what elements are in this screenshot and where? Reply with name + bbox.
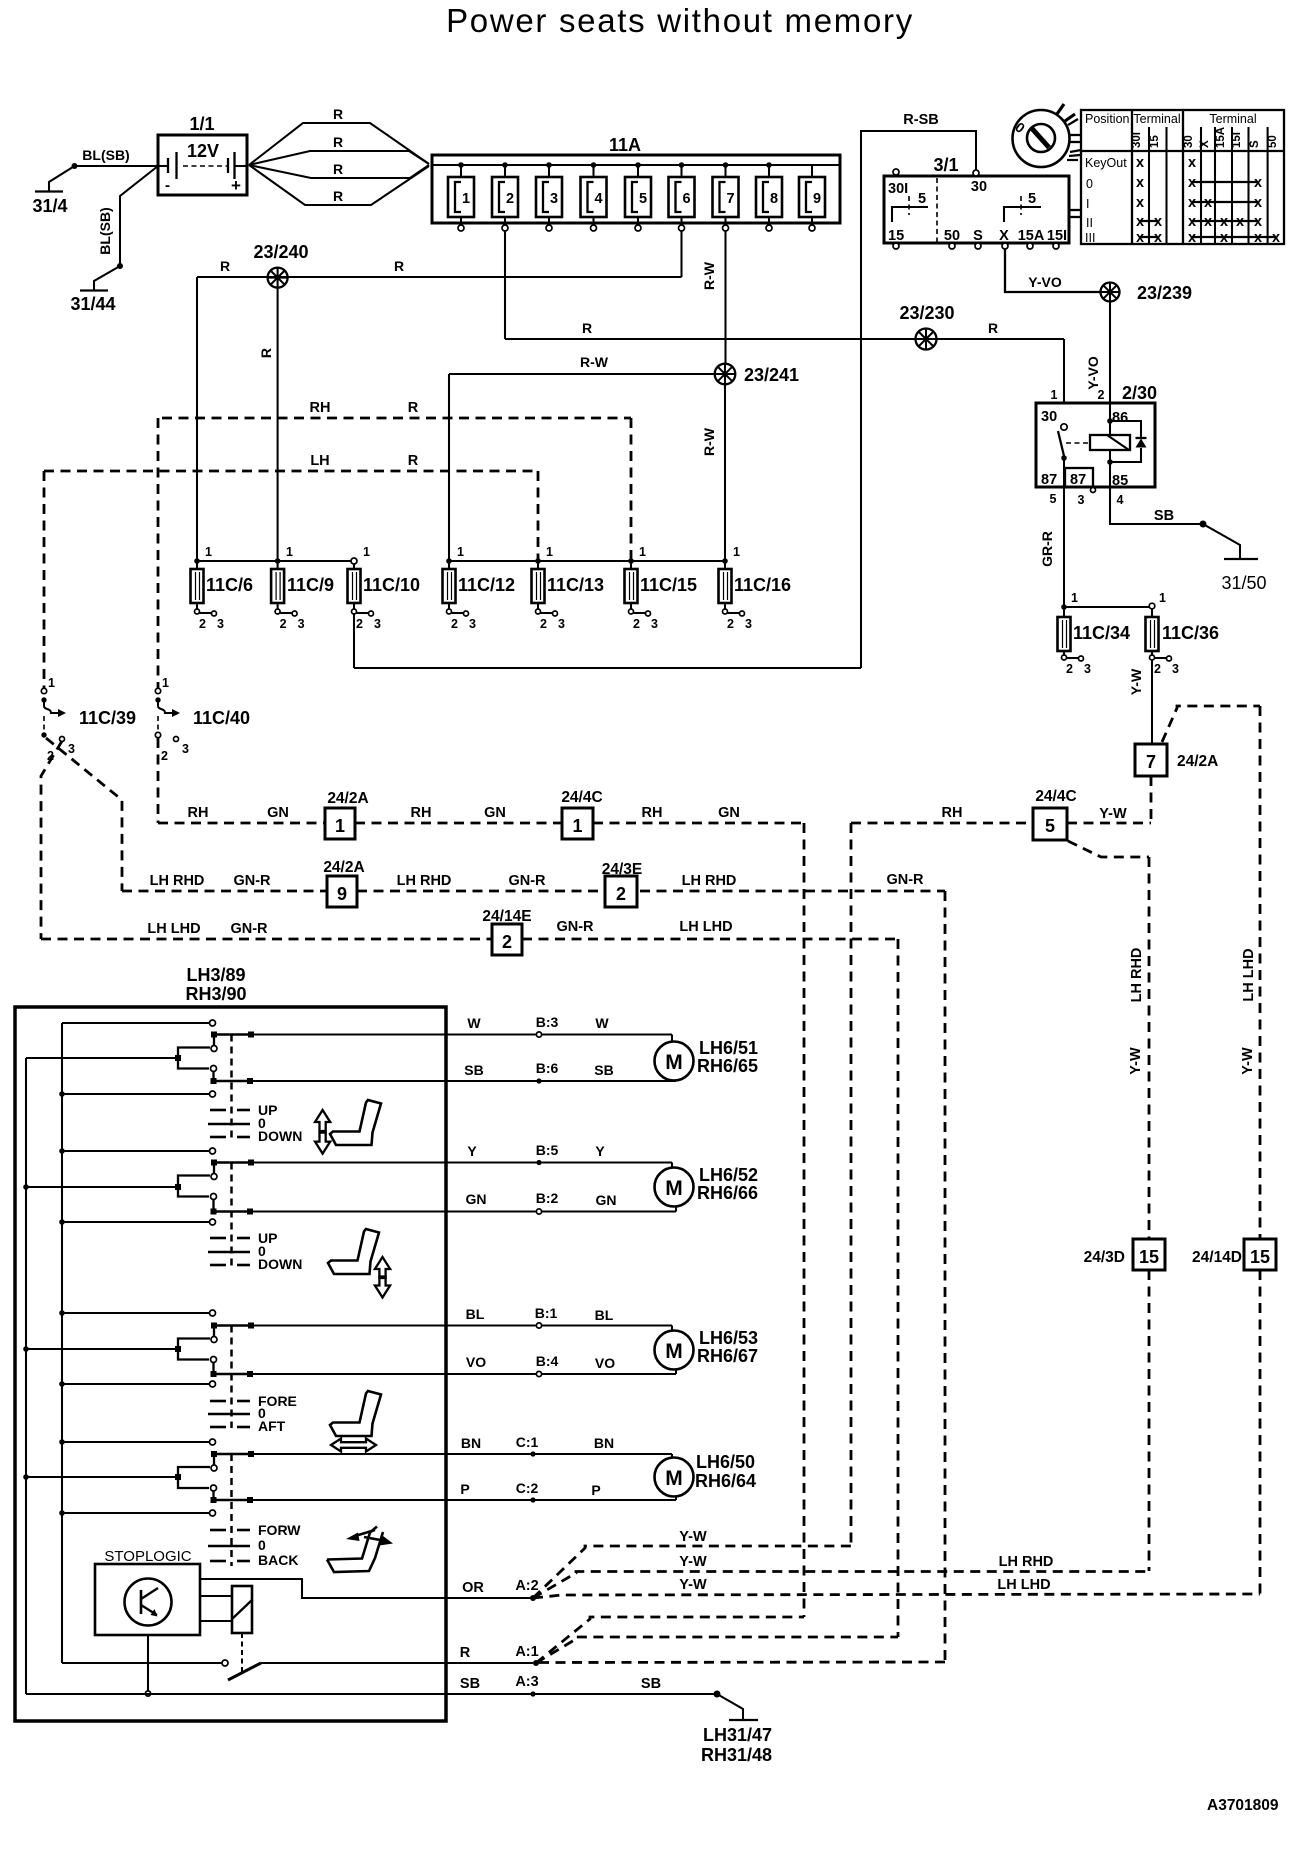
wire SB row [26, 1674, 743, 1720]
svg-text:11C/15: 11C/15 [640, 575, 697, 595]
wire R row with switch [62, 1644, 539, 1680]
svg-text:5: 5 [918, 191, 926, 207]
wire pin7 down to Y-W row [1150, 776, 1153, 823]
svg-text:x: x [1136, 195, 1144, 211]
connector 11C/9 [271, 545, 334, 631]
wire 11C/39 pin2 to LH RHD row [46, 738, 122, 891]
svg-text:11C/10: 11C/10 [363, 575, 420, 595]
svg-text:RH: RH [642, 805, 663, 821]
svg-text:x: x [1236, 214, 1244, 230]
svg-text:12V: 12V [187, 141, 219, 161]
svg-text:2: 2 [540, 617, 547, 631]
svg-text:1: 1 [572, 816, 582, 836]
svg-text:W: W [595, 1015, 609, 1031]
splice 23/240 [253, 242, 308, 288]
connector 11C/34 [1058, 591, 1167, 676]
svg-text:LH RHD: LH RHD [397, 873, 452, 889]
svg-text:LH3/89: LH3/89 [186, 965, 245, 985]
splice 23/239 [1101, 283, 1193, 304]
switch group 4 (tilt) [26, 1439, 301, 1568]
wire dashed row 6 from A:1 [539, 1661, 945, 1664]
wire dashed row 4 from A:1 [536, 1617, 804, 1663]
connector 11C/15 [625, 545, 698, 631]
svg-text:LH RHD: LH RHD [150, 873, 205, 889]
wire Y-W pin5 to pin7 riser [1067, 806, 1151, 823]
wire Y to motor [251, 1142, 672, 1168]
wire GR-R relay pin5 down [1039, 487, 1064, 607]
svg-text:x: x [1188, 230, 1196, 246]
svg-text:C:1: C:1 [516, 1434, 539, 1450]
svg-text:Y-W: Y-W [1128, 1047, 1144, 1075]
svg-text:87: 87 [1041, 472, 1057, 488]
svg-text:M: M [665, 1340, 683, 1363]
wire BN to motor [251, 1434, 672, 1458]
svg-text:30: 30 [971, 179, 987, 195]
wire LH LHD vertical [1240, 706, 1260, 1239]
fuse 7 [713, 162, 739, 231]
svg-text:R: R [408, 400, 419, 416]
fuse 8 [756, 162, 782, 231]
seat icon 3 with fore-aft arrow [330, 1391, 381, 1452]
svg-text:R-W: R-W [701, 427, 717, 456]
ignition switch 3/1 [884, 155, 1081, 249]
svg-text:+: + [231, 176, 241, 195]
wire dashed row 5 from A:1 [536, 1637, 898, 1663]
svg-text:LH LHD: LH LHD [679, 919, 732, 935]
svg-text:B:1: B:1 [535, 1305, 558, 1321]
svg-text:87: 87 [1070, 472, 1086, 488]
svg-text:GN-R: GN-R [556, 919, 594, 935]
svg-text:2: 2 [727, 617, 734, 631]
svg-text:1: 1 [546, 545, 553, 559]
svg-text:VO: VO [595, 1355, 615, 1371]
wire Y-W 11C/36 to pin7 [1128, 660, 1152, 744]
svg-text:R: R [333, 161, 343, 177]
svg-text:DOWN: DOWN [258, 1256, 302, 1272]
svg-text:SB: SB [641, 1676, 661, 1692]
wire R fuse2 down [504, 231, 506, 339]
svg-text:R: R [460, 1645, 471, 1661]
svg-text:3: 3 [1172, 662, 1179, 676]
wire R-W 23/241 to 11C/12 [449, 354, 715, 561]
svg-text:2: 2 [199, 617, 206, 631]
svg-text:x: x [1154, 214, 1162, 230]
wire Y-W LH LHD row from A:2 [533, 1577, 1260, 1598]
svg-text:Y-W: Y-W [679, 1577, 707, 1593]
svg-text:Terminal: Terminal [1133, 112, 1180, 126]
svg-text:3: 3 [1078, 493, 1085, 507]
svg-text:RH: RH [411, 805, 432, 821]
motor LH6/51 RH6/65 [655, 1038, 759, 1081]
svg-text:x: x [1154, 230, 1162, 246]
svg-text:-: - [165, 177, 170, 194]
svg-text:Y-W: Y-W [679, 1529, 707, 1545]
svg-text:1: 1 [205, 545, 212, 559]
svg-text:1: 1 [162, 676, 169, 690]
fuse 4 [581, 162, 607, 231]
svg-text:3: 3 [469, 617, 476, 631]
svg-text:5: 5 [1050, 492, 1057, 506]
svg-text:R: R [582, 320, 592, 336]
wire R-W fuse7 to 23/241 [701, 231, 726, 363]
svg-text:9: 9 [813, 191, 821, 207]
svg-text:A3701809: A3701809 [1207, 1797, 1279, 1814]
switch 11C/39 [41, 471, 136, 763]
svg-text:3: 3 [1084, 662, 1091, 676]
seat icon 4 tilt with arrows [327, 1527, 393, 1573]
wire BL(SB) to 31/44 [94, 166, 158, 290]
wire SB to motor [250, 1060, 676, 1084]
svg-text:24/4C: 24/4C [1035, 788, 1076, 805]
wire LH LHD row (middle) [41, 919, 898, 939]
svg-text:GN: GN [466, 1191, 487, 1207]
svg-text:15A: 15A [1215, 127, 1227, 148]
connector pin 24/4C 5 [1033, 788, 1077, 840]
ignition position table [1081, 110, 1284, 246]
key symbol [1012, 104, 1081, 167]
svg-text:SB: SB [594, 1062, 613, 1078]
wire bus left B [23, 1058, 29, 1694]
relay 2/30 [1036, 383, 1157, 507]
svg-text:11C/16: 11C/16 [734, 575, 791, 595]
svg-text:RH: RH [310, 400, 331, 416]
wire vertical from LH LHD row down [897, 939, 900, 1637]
svg-text:LH LHD: LH LHD [997, 1577, 1050, 1593]
svg-text:2: 2 [502, 932, 512, 952]
wire P to motor [250, 1480, 676, 1503]
svg-text:A:2: A:2 [515, 1578, 538, 1594]
wire LH RHD row (middle) [122, 872, 945, 891]
fuse 5 [625, 162, 651, 231]
wire Y-VO from X terminal [1005, 249, 1100, 292]
svg-text:A:3: A:3 [515, 1674, 538, 1690]
svg-text:24/2A: 24/2A [323, 859, 364, 876]
svg-text:RH6/66: RH6/66 [697, 1183, 758, 1203]
svg-text:R: R [394, 258, 404, 274]
svg-text:KeyOut: KeyOut [1085, 156, 1127, 170]
svg-text:23/241: 23/241 [744, 365, 799, 385]
connector pin 24/4C 1 [561, 789, 602, 839]
svg-text:x: x [1220, 230, 1228, 246]
svg-text:24/3D: 24/3D [1084, 1249, 1125, 1266]
svg-text:BACK: BACK [258, 1552, 298, 1568]
svg-text:24/4C: 24/4C [561, 789, 602, 806]
svg-text:x: x [1136, 155, 1144, 171]
connector pin 24/14D 15 [1192, 1239, 1276, 1594]
svg-text:15: 15 [1250, 1247, 1270, 1267]
svg-text:BL(SB): BL(SB) [97, 207, 113, 254]
wire R-SB [861, 112, 976, 668]
svg-text:3: 3 [745, 617, 752, 631]
svg-text:S: S [1249, 140, 1261, 148]
svg-text:1: 1 [457, 545, 464, 559]
svg-text:x: x [1188, 195, 1196, 211]
fuse 9 [799, 165, 825, 231]
svg-text:LH6/52: LH6/52 [699, 1165, 758, 1185]
svg-text:x: x [1204, 214, 1212, 230]
svg-text:A:1: A:1 [515, 1644, 538, 1660]
switch group 2 (height rear) [26, 1148, 302, 1272]
svg-text:M: M [665, 1051, 683, 1074]
svg-text:3: 3 [217, 617, 224, 631]
fuse 1 [448, 162, 474, 231]
svg-text:30: 30 [1041, 409, 1057, 425]
svg-text:FORW: FORW [258, 1522, 301, 1538]
connector pin 24/3D 15 [1084, 1239, 1165, 1571]
svg-text:x: x [1272, 230, 1280, 246]
svg-text:C:2: C:2 [516, 1480, 539, 1496]
control module LH3/89 RH3/90 [15, 965, 446, 1721]
svg-text:1: 1 [733, 545, 740, 559]
svg-text:R-W: R-W [701, 261, 717, 290]
svg-text:1: 1 [1071, 591, 1078, 605]
connector 11C/36 [1146, 609, 1220, 676]
wire Y-VO down to relay [1085, 302, 1110, 404]
connector 11C/13 [532, 545, 605, 631]
svg-text:15I: 15I [1231, 132, 1243, 148]
svg-text:DOWN: DOWN [258, 1128, 302, 1144]
fuse box 11A [432, 135, 840, 223]
svg-text:LH RHD: LH RHD [682, 873, 737, 889]
svg-text:R: R [333, 134, 343, 150]
svg-text:Y-VO: Y-VO [1028, 274, 1062, 290]
wire Y-W row 1 from A:2 [533, 1529, 851, 1598]
wire stoplogic to SB row [145, 1635, 150, 1696]
svg-text:2: 2 [506, 191, 514, 207]
svg-text:RH6/64: RH6/64 [695, 1471, 756, 1491]
wire vertical from LH RHD row down [944, 891, 947, 1662]
svg-text:RH: RH [188, 805, 209, 821]
svg-text:4: 4 [1117, 493, 1124, 507]
svg-text:Power seats without memory: Power seats without memory [446, 2, 914, 39]
wire W to motor [251, 1014, 672, 1042]
svg-text:B:5: B:5 [536, 1142, 559, 1158]
svg-text:1: 1 [48, 676, 55, 690]
ground 31/44 [70, 291, 115, 315]
svg-text:II: II [1086, 216, 1093, 230]
svg-text:15A: 15A [1018, 228, 1045, 244]
svg-text:M: M [665, 1177, 683, 1200]
svg-text:R: R [408, 453, 419, 469]
svg-text:23/230: 23/230 [899, 303, 954, 323]
node pin1 bus 11C/6..11C/10 [197, 560, 352, 562]
svg-text:VO: VO [466, 1354, 486, 1370]
svg-text:x: x [1188, 214, 1196, 230]
svg-text:Y-W: Y-W [679, 1554, 707, 1570]
svg-text:Y: Y [595, 1143, 605, 1159]
svg-text:5: 5 [1045, 816, 1055, 836]
svg-text:x: x [1188, 155, 1196, 171]
wire R fuse6 to 23/240 [197, 231, 682, 277]
svg-text:24/14E: 24/14E [482, 908, 531, 925]
svg-text:5: 5 [1028, 191, 1036, 207]
battery 1/1 [158, 114, 247, 195]
svg-text:x: x [1136, 175, 1144, 191]
svg-text:STOPLOGIC: STOPLOGIC [104, 1548, 191, 1565]
svg-text:LH LHD: LH LHD [147, 921, 200, 937]
svg-text:11C/12: 11C/12 [458, 575, 515, 595]
svg-text:24/14D: 24/14D [1192, 1249, 1242, 1266]
svg-text:GN: GN [484, 805, 506, 821]
wire VO to motor [250, 1353, 676, 1377]
wire GN to motor [250, 1190, 676, 1214]
splice 23/230 [899, 303, 954, 350]
svg-text:LH RHD: LH RHD [1129, 948, 1145, 1003]
svg-text:LH: LH [310, 453, 329, 469]
svg-text:BL(SB): BL(SB) [82, 147, 129, 163]
svg-text:24/2A: 24/2A [1177, 753, 1218, 770]
wire RH into 24/4C 5 [851, 805, 1033, 823]
svg-text:R-W: R-W [580, 354, 609, 370]
ground LH31/47 RH31/48 [701, 1720, 772, 1765]
svg-text:GN-R: GN-R [233, 873, 271, 889]
svg-text:RH3/90: RH3/90 [185, 984, 246, 1004]
connector pin 24/3E 2 [602, 861, 643, 907]
seat icon 1 with up-down arrow [315, 1100, 381, 1154]
svg-text:SB: SB [464, 1062, 483, 1078]
wire R 23/240 down to 11C/9 [258, 288, 278, 561]
wire R-W 23/241 down to 11C/16 [701, 384, 725, 561]
svg-text:11C/40: 11C/40 [193, 708, 250, 728]
svg-text:Y-W: Y-W [1240, 1047, 1256, 1075]
svg-text:BL: BL [466, 1306, 485, 1322]
svg-text:x: x [1254, 195, 1262, 211]
svg-text:X: X [999, 228, 1009, 244]
svg-text:Position: Position [1085, 112, 1130, 126]
svg-text:24/2A: 24/2A [327, 790, 368, 807]
svg-text:30I: 30I [888, 181, 908, 197]
wire LH dashed (top row) [44, 453, 538, 561]
svg-text:50: 50 [944, 228, 960, 244]
svg-text:Y-W: Y-W [1128, 668, 1144, 695]
svg-text:P: P [591, 1482, 600, 1498]
svg-text:11C/13: 11C/13 [547, 575, 604, 595]
splice 23/241 [715, 364, 799, 385]
svg-text:0: 0 [1086, 177, 1093, 191]
svg-text:W: W [467, 1015, 481, 1031]
svg-text:1: 1 [462, 191, 470, 207]
svg-text:AFT: AFT [258, 1418, 286, 1434]
svg-text:2: 2 [1154, 662, 1161, 676]
svg-text:LH LHD: LH LHD [1241, 948, 1257, 1001]
svg-text:2: 2 [161, 749, 168, 763]
svg-text:SB: SB [1154, 508, 1174, 524]
wire SB relay pin4 to ground [1110, 487, 1240, 559]
svg-text:x: x [1204, 195, 1212, 211]
wire 11C/39 pin3 to LH LHD row [41, 741, 62, 939]
svg-text:15I: 15I [1047, 228, 1067, 244]
stoplogic relay element [200, 1586, 252, 1672]
svg-text:LH RHD: LH RHD [999, 1554, 1054, 1570]
motor LH6/52 RH6/66 [655, 1165, 759, 1207]
svg-text:1: 1 [363, 545, 370, 559]
connector 11C/6 [191, 545, 254, 631]
svg-text:8: 8 [770, 191, 778, 207]
svg-text:15: 15 [1139, 1247, 1159, 1267]
svg-text:2: 2 [280, 617, 287, 631]
svg-text:B:6: B:6 [536, 1060, 559, 1076]
svg-text:2: 2 [356, 617, 363, 631]
wire from 11C/10 pin2 [353, 614, 355, 668]
svg-text:B:2: B:2 [536, 1190, 559, 1206]
svg-text:23/239: 23/239 [1137, 283, 1192, 303]
svg-text:R: R [333, 188, 343, 204]
svg-text:RH6/67: RH6/67 [697, 1346, 758, 1366]
seat icon 2 with up-down arrow [328, 1229, 390, 1298]
svg-text:x: x [1254, 175, 1262, 191]
svg-text:B:3: B:3 [536, 1014, 559, 1030]
svg-text:6: 6 [682, 191, 690, 207]
svg-text:x: x [1220, 214, 1228, 230]
svg-text:x: x [1136, 214, 1144, 230]
svg-text:GN: GN [596, 1192, 617, 1208]
wire Y-W LH RHD row from A:2 [533, 1554, 1149, 1598]
svg-text:3/1: 3/1 [933, 155, 958, 175]
svg-text:85: 85 [1112, 473, 1128, 489]
fuse 3 [536, 162, 562, 231]
svg-text:1: 1 [639, 545, 646, 559]
svg-text:BL: BL [595, 1307, 614, 1323]
wire R fuse2 to relay [505, 320, 1064, 339]
svg-text:LH6/53: LH6/53 [699, 1328, 758, 1348]
ground 31/50 [1221, 559, 1266, 593]
svg-text:R: R [333, 106, 343, 122]
svg-text:7: 7 [1146, 752, 1156, 772]
node pin1 bus 11C/12..11C/16 [449, 560, 725, 562]
svg-text:III: III [1085, 231, 1095, 245]
svg-text:3: 3 [182, 742, 189, 756]
svg-text:2: 2 [1066, 662, 1073, 676]
svg-text:15: 15 [888, 228, 904, 244]
connector 11C/16 [719, 545, 792, 631]
svg-text:x: x [1254, 214, 1262, 230]
wire LH LHD upper diagonal [1162, 706, 1260, 742]
svg-text:BN: BN [594, 1435, 614, 1451]
svg-text:R: R [258, 348, 274, 358]
wire 11C/40 pin2 to RH row [157, 738, 160, 823]
svg-text:3: 3 [651, 617, 658, 631]
svg-text:1: 1 [286, 545, 293, 559]
svg-text:2: 2 [633, 617, 640, 631]
svg-text:GN: GN [718, 805, 740, 821]
wire R down to relay pin1 [1063, 339, 1065, 403]
svg-text:1: 1 [1159, 591, 1166, 605]
svg-text:23/240: 23/240 [253, 242, 308, 262]
svg-text:LH31/47: LH31/47 [703, 1725, 772, 1745]
switch group 3 (fore-aft) [26, 1310, 297, 1434]
svg-text:GN-R: GN-R [508, 873, 546, 889]
svg-text:BN: BN [461, 1435, 481, 1451]
wire OR from stoplogic [200, 1578, 539, 1601]
svg-text:50: 50 [1267, 135, 1279, 148]
svg-text:11C/6: 11C/6 [206, 575, 253, 595]
svg-text:11C/34: 11C/34 [1073, 623, 1130, 643]
svg-text:2/30: 2/30 [1122, 383, 1157, 403]
svg-text:M: M [665, 1467, 683, 1490]
wire R down to 11C/6 [196, 277, 198, 561]
svg-text:30I: 30I [1131, 132, 1143, 148]
svg-text:7: 7 [726, 191, 734, 207]
svg-text:1: 1 [1051, 388, 1058, 402]
connector pin 24/2A 9 [323, 859, 364, 907]
svg-text:2: 2 [451, 617, 458, 631]
svg-text:Terminal: Terminal [1209, 112, 1256, 126]
wire vertical from 24/4C1 down [803, 823, 806, 1617]
svg-text:9: 9 [337, 884, 347, 904]
ground 31/4 [32, 192, 67, 217]
connector pin 24/2A 1 [325, 790, 369, 839]
svg-text:3: 3 [374, 617, 381, 631]
